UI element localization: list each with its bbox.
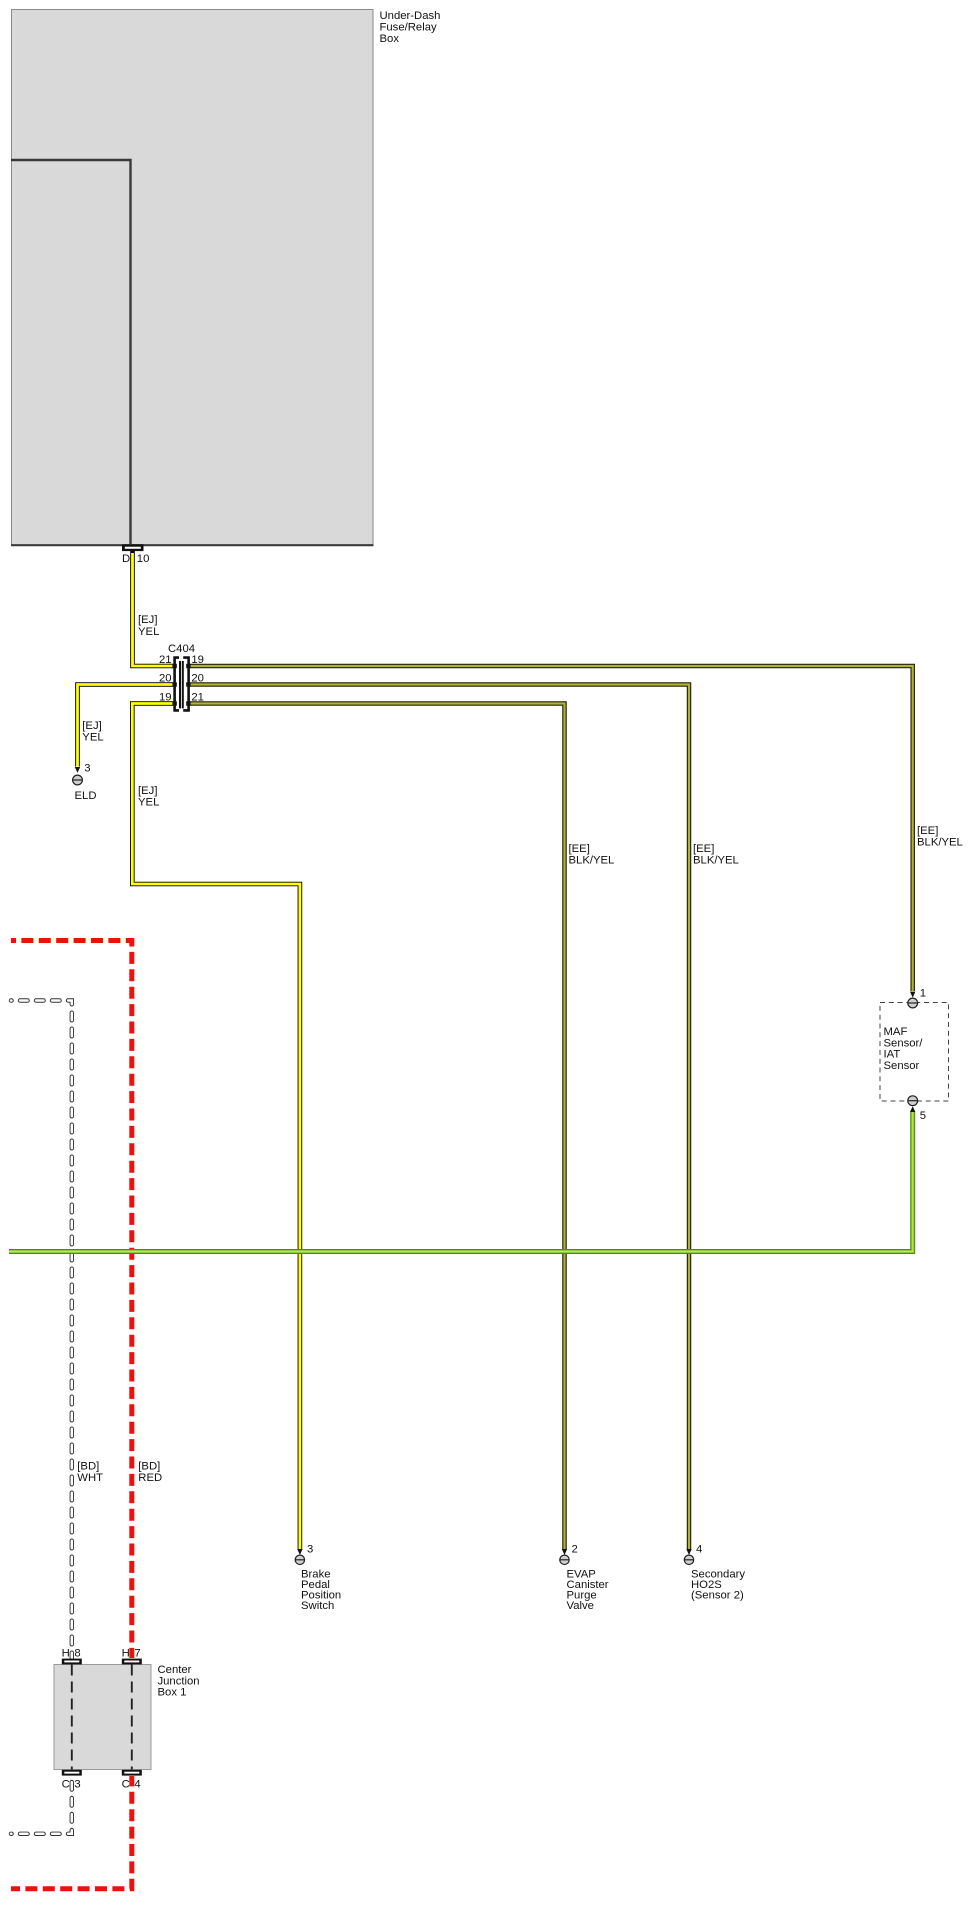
- svg-text:BLK/YEL: BLK/YEL: [569, 854, 615, 866]
- svg-text:(Sensor 2): (Sensor 2): [691, 1590, 744, 1602]
- svg-text:IAT: IAT: [884, 1049, 901, 1061]
- wire GRN from MAF pin 5 to left: [9, 1106, 915, 1251]
- wire [EE] BLK/YEL C404 pin 20 to Secondary HO2S: [189, 685, 739, 1556]
- connector H 8: [62, 1648, 82, 1665]
- svg-text:Under-Dash: Under-Dash: [380, 10, 441, 22]
- svg-text:[EE]: [EE]: [917, 825, 938, 837]
- wire [EE] BLK/YEL C404 pin 21 to EVAP Canister Purge Valve: [189, 704, 614, 1556]
- svg-text:YEL: YEL: [138, 796, 159, 808]
- svg-text:C404: C404: [168, 643, 195, 655]
- svg-text:Valve: Valve: [567, 1600, 594, 1612]
- svg-text:Switch: Switch: [301, 1600, 334, 1612]
- connector D 10: [122, 544, 149, 565]
- svg-text:4: 4: [696, 1543, 702, 1555]
- svg-text:10: 10: [137, 553, 150, 565]
- svg-text:C: C: [122, 1779, 130, 1791]
- wire: black dashed RED path inside junction box: [131, 1665, 133, 1770]
- wire [BD] RED dashed through Center Junction Box 1: [11, 941, 162, 1889]
- svg-text:20: 20: [191, 673, 204, 685]
- svg-text:19: 19: [191, 654, 204, 666]
- svg-text:Sensor/: Sensor/: [884, 1037, 924, 1049]
- svg-text:[EE]: [EE]: [693, 843, 714, 855]
- svg-text:H: H: [122, 1648, 130, 1660]
- svg-text:20: 20: [159, 673, 172, 685]
- svg-text:ELD: ELD: [75, 790, 97, 802]
- wire [EJ] YEL from D10 to C404 pin 21: [133, 551, 174, 666]
- svg-text:21: 21: [159, 654, 172, 666]
- MAF Sensor/IAT Sensor box: [880, 1003, 949, 1102]
- svg-text:Junction: Junction: [158, 1675, 200, 1687]
- svg-text:[EE]: [EE]: [569, 843, 590, 855]
- svg-text:5: 5: [920, 1110, 926, 1122]
- svg-text:3: 3: [74, 1779, 80, 1791]
- Under-Dash Fuse/Relay Box: [11, 10, 440, 546]
- svg-text:3: 3: [84, 763, 90, 775]
- wire: black dashed WHT path inside junction box: [71, 1665, 73, 1770]
- svg-text:D: D: [122, 553, 130, 565]
- svg-text:1: 1: [920, 988, 926, 1000]
- svg-text:Fuse/Relay: Fuse/Relay: [380, 21, 437, 33]
- svg-text:[EJ]: [EJ]: [138, 785, 157, 797]
- svg-text:YEL: YEL: [82, 731, 103, 743]
- svg-text:[EJ]: [EJ]: [82, 720, 101, 732]
- terminal 2 EVAP Canister Purge Valve: [560, 1543, 609, 1612]
- svg-text:BLK/YEL: BLK/YEL: [693, 854, 739, 866]
- svg-text:[BD]: [BD]: [77, 1460, 99, 1472]
- wire [EJ] YEL C404 pin 20 to ELD: [75, 685, 173, 773]
- svg-text:7: 7: [134, 1648, 140, 1660]
- terminal 5 MAF Sensor: [908, 1096, 926, 1122]
- svg-text:Center: Center: [158, 1664, 192, 1676]
- wire [BD] WHT dashed through Center Junction Box 1: [11, 1001, 103, 1834]
- svg-text:21: 21: [191, 692, 204, 704]
- svg-text:[BD]: [BD]: [138, 1460, 160, 1472]
- svg-text:RED: RED: [138, 1472, 162, 1484]
- terminal 4 Secondary HO2S (Sensor 2): [684, 1543, 745, 1601]
- wire [EE] BLK/YEL C404 pin 19 to MAF Sensor pin 1: [189, 666, 963, 998]
- connector C 3: [62, 1770, 82, 1791]
- svg-text:WHT: WHT: [77, 1472, 103, 1484]
- svg-text:19: 19: [159, 692, 172, 704]
- svg-text:H: H: [62, 1648, 70, 1660]
- svg-text:MAF: MAF: [884, 1026, 908, 1038]
- wire: internal fuse box wire to D10: [11, 160, 131, 544]
- svg-text:3: 3: [307, 1543, 313, 1555]
- svg-text:2: 2: [572, 1543, 578, 1555]
- terminal 1 MAF Sensor: [908, 988, 926, 1008]
- svg-text:4: 4: [134, 1779, 140, 1791]
- svg-text:YEL: YEL: [138, 626, 159, 638]
- connector C 4: [122, 1770, 142, 1791]
- Center Junction Box 1: [54, 1664, 200, 1770]
- connector C404: [159, 643, 204, 711]
- terminal 3 ELD: [73, 763, 97, 802]
- svg-text:8: 8: [74, 1648, 80, 1660]
- terminal 3 Brake Pedal Position Switch: [295, 1543, 341, 1612]
- svg-text:Box: Box: [380, 33, 400, 45]
- svg-text:Sensor: Sensor: [884, 1060, 920, 1072]
- svg-text:C: C: [62, 1779, 70, 1791]
- svg-text:BLK/YEL: BLK/YEL: [917, 836, 963, 848]
- wire [EJ] YEL C404 pin 19 to Brake Pedal Position Switch: [132, 704, 302, 1556]
- svg-text:Box 1: Box 1: [158, 1687, 187, 1699]
- svg-text:[EJ]: [EJ]: [138, 614, 157, 626]
- connector H 7: [122, 1648, 142, 1665]
